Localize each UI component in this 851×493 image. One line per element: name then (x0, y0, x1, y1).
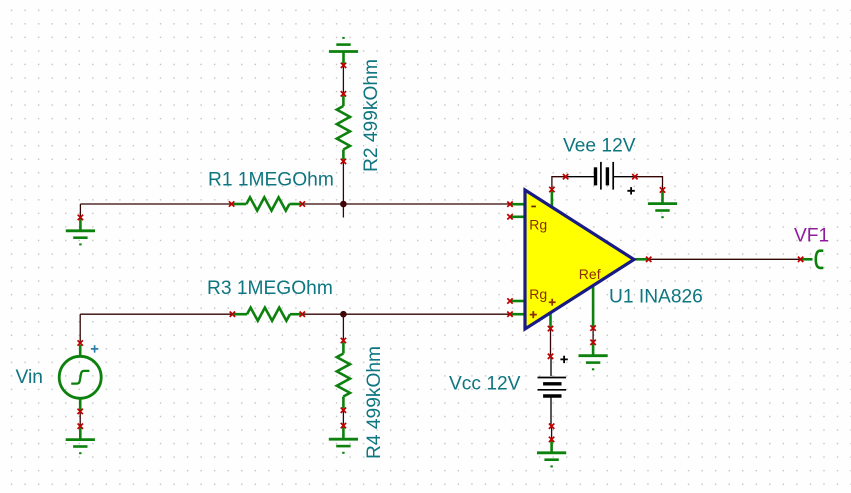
op-amp U1 input pin stubs (507, 202, 525, 317)
resistor R2 (337, 91, 350, 164)
battery Vcc plus sign (560, 356, 567, 363)
svg-text:Rg: Rg (529, 216, 547, 232)
wire: R3 to op-amp plus input (302, 313, 510, 315)
ground (Vcc battery) (537, 437, 566, 467)
wire: Vin corner vertical (79, 314, 81, 343)
op-amp U1 output pin (634, 257, 651, 262)
svg-text:U1 INA826: U1 INA826 (609, 287, 703, 308)
wire: R4 to ground (342, 410, 344, 425)
ground (Ref pin) (579, 340, 608, 370)
battery Vcc 12V (538, 354, 567, 429)
wire: node B to R4 (342, 314, 344, 340)
wire: op-amp V- pin to Vee battery (552, 177, 566, 190)
battery Vee 12V (563, 162, 638, 190)
ground (left input) (66, 215, 95, 245)
op-amp U1 V- supply pin (549, 187, 554, 208)
pin label minus (531, 206, 536, 208)
pin label + subscript of Rg+ (549, 299, 556, 306)
wire: input A horizontal to R1 (80, 203, 231, 205)
node B junction (R3/R4) (340, 311, 347, 318)
svg-text:R1 1MEGOhm: R1 1MEGOhm (208, 170, 334, 191)
op-amp U1 V+ supply pin (548, 310, 553, 331)
svg-text:Ref: Ref (579, 266, 601, 282)
wire: input A corner vertical (79, 204, 81, 217)
wire: R1 to op-amp minus input (302, 203, 510, 205)
op-amp U1 INA826 triangle (525, 190, 634, 329)
node A junction (R1/R2) (340, 201, 347, 208)
wire: Vcc battery to ground (551, 426, 553, 439)
wire: op-amp output to VF1 probe (649, 258, 801, 260)
svg-text:R4 499kOhm: R4 499kOhm (364, 346, 385, 459)
op-amp U1 Ref pin (590, 284, 595, 331)
voltage probe VF1 (798, 251, 823, 268)
svg-text:Rg: Rg (529, 286, 547, 302)
wire: Ref pin to ground (592, 328, 594, 342)
wire: top ground to R2 (342, 65, 344, 94)
wire: op-amp V+ pin to Vcc battery (550, 329, 552, 357)
wire: Vin to ground (79, 411, 81, 426)
resistor R1 (229, 197, 305, 210)
battery Vee plus sign (627, 187, 634, 194)
voltage source Vin (59, 340, 101, 414)
resistor R4 (337, 338, 350, 413)
ground (Vee battery) (648, 187, 677, 217)
svg-text:Vin: Vin (16, 367, 43, 388)
svg-text:Vcc 12V: Vcc 12V (449, 374, 521, 395)
wire: input B horizontal to R3 (80, 313, 232, 315)
wire: R2 to node A (342, 161, 344, 204)
ground (below Vin) (66, 424, 95, 454)
wire: stub below node A (342, 204, 344, 218)
resistor R3 (230, 308, 305, 321)
wire: Vee battery to ground (635, 177, 663, 190)
ground (below R4) (329, 423, 358, 453)
svg-text:R3 1MEGOhm: R3 1MEGOhm (207, 278, 333, 299)
svg-text:Vee 12V: Vee 12V (563, 136, 636, 157)
pin label plus input (530, 311, 537, 318)
svg-text:VF1: VF1 (794, 226, 829, 247)
ground (top, above R2, inverted) (329, 38, 358, 68)
svg-text:R2 499kOhm: R2 499kOhm (361, 59, 382, 172)
